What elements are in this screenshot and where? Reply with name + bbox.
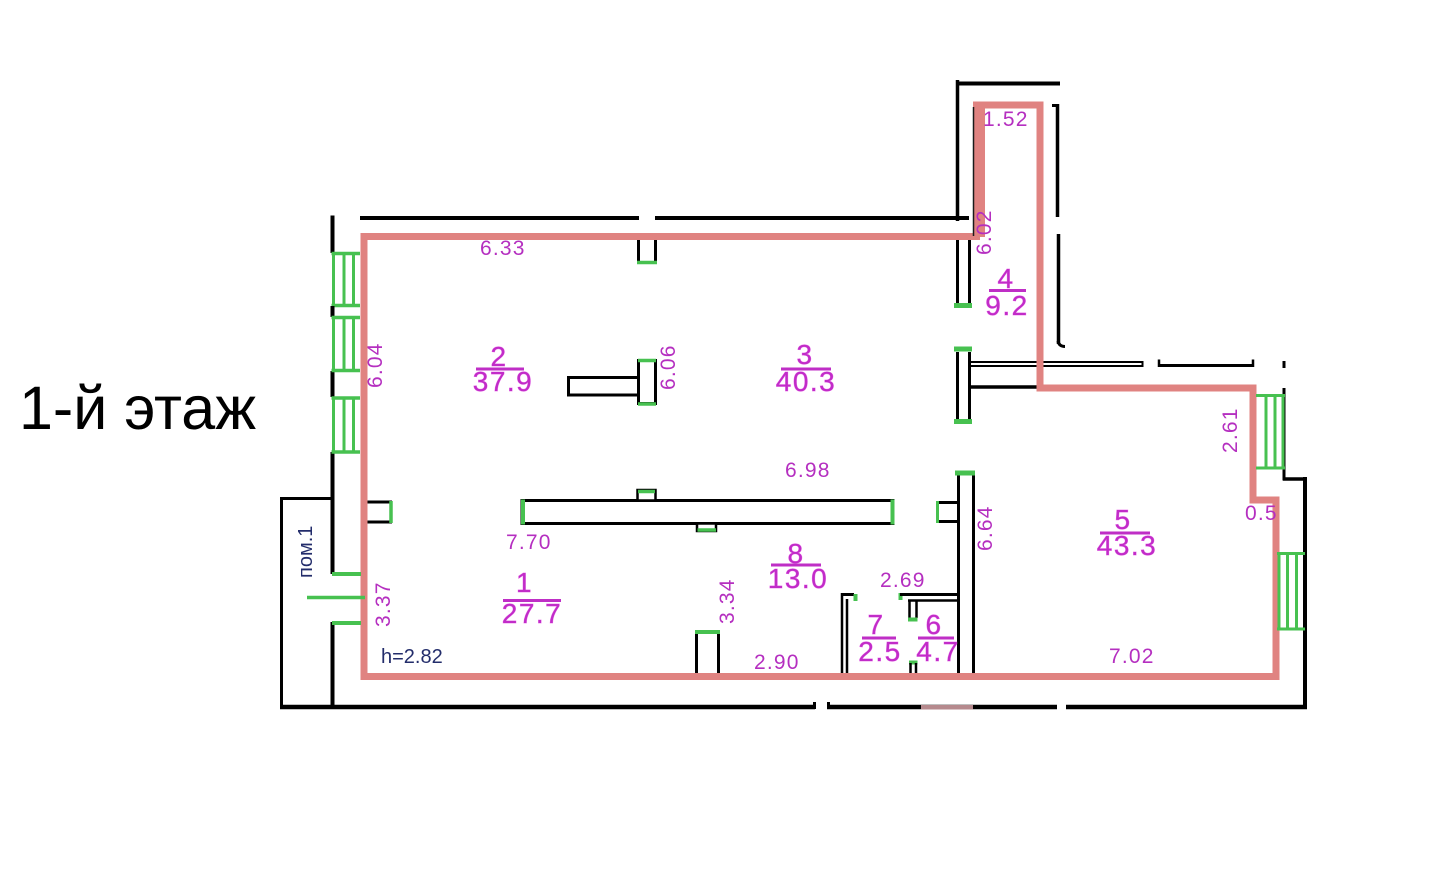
door left wall lower green cap xyxy=(332,621,361,625)
wall right step horizontal xyxy=(1283,477,1307,481)
svg-text:2.61: 2.61 xyxy=(1219,407,1242,453)
svg-text:6.04: 6.04 xyxy=(364,342,387,388)
wall rooms67 top line xyxy=(900,593,958,596)
wall top segment A xyxy=(360,216,639,220)
wall mid below tower door double left line xyxy=(956,352,959,419)
wall left main lower xyxy=(331,622,335,709)
wall left protrusion bottom xyxy=(366,521,392,524)
wall stair lower double line bottom xyxy=(969,365,1143,367)
wall bottom gap tick left xyxy=(813,702,816,709)
wall top segment B xyxy=(655,216,969,220)
wall room7 left inner line xyxy=(846,599,849,676)
svg-text:2.69: 2.69 xyxy=(880,569,926,592)
wall stair segment 2 right tick xyxy=(1252,360,1255,368)
door green cap divider67 lower top xyxy=(909,661,918,665)
window left 2 xyxy=(332,317,361,371)
svg-text:6.06: 6.06 xyxy=(657,344,680,390)
wall left protrusion top xyxy=(366,501,392,504)
pink apartment outline xyxy=(364,105,1276,677)
wall bottom greyish overlay xyxy=(921,705,973,710)
door green central notch bottom xyxy=(698,528,717,532)
wall stair segment 2 left tick xyxy=(1158,360,1161,368)
label room 4 area xyxy=(985,263,1028,321)
svg-text:3.34: 3.34 xyxy=(716,578,739,624)
wall window-right edge vertical xyxy=(1283,388,1286,481)
wall tower right top foot xyxy=(1052,104,1059,107)
wall bottom segment A xyxy=(280,705,815,710)
wall tower right upper xyxy=(1056,104,1060,217)
svg-text:2.90: 2.90 xyxy=(754,651,800,674)
door green tower left cap1 xyxy=(954,303,972,308)
door green tower left cap2 xyxy=(954,347,972,352)
svg-text:9.2: 9.2 xyxy=(985,290,1028,321)
svg-text:h=2.82: h=2.82 xyxy=(381,646,443,668)
wall divider67 lower left xyxy=(909,663,912,676)
window left 3 xyxy=(332,397,361,452)
wall left main upper xyxy=(331,371,335,397)
wall T column horizontal bar xyxy=(569,378,640,396)
pink tower left thick stripe xyxy=(974,102,986,238)
label room 2 area xyxy=(473,341,534,397)
wall 2.90 piece right xyxy=(717,631,720,676)
wall divider67 left line xyxy=(908,600,911,618)
label room 5 area xyxy=(1097,504,1158,561)
wall top-left short vertical xyxy=(331,216,335,254)
svg-text:1.52: 1.52 xyxy=(983,108,1029,131)
wall central bottom notch xyxy=(697,524,716,532)
wall divider67 right line xyxy=(915,600,918,618)
wall dash above right window xyxy=(1283,361,1286,368)
wall tower left lower double right line xyxy=(968,239,971,304)
door left wall green leaf line xyxy=(307,596,365,600)
svg-text:1: 1 xyxy=(516,567,533,598)
wall tower top xyxy=(956,82,1060,86)
wall stair lower double line top xyxy=(969,361,1143,363)
svg-text:пом.1: пом.1 xyxy=(295,526,317,578)
window 6.64 notch green left edge xyxy=(936,501,939,523)
svg-text:1-й этаж: 1-й этаж xyxy=(19,374,256,442)
wall 6.64 left line xyxy=(957,472,960,676)
door green 6.64 top cap xyxy=(955,471,975,476)
door green mid wall bottom cap xyxy=(954,419,972,424)
label room 8 area xyxy=(768,538,829,594)
door green top piece bottom cap xyxy=(637,261,657,265)
wall tower right bottom hook xyxy=(1058,341,1065,347)
wall tower left upper xyxy=(956,80,960,221)
wall 2.90 piece left xyxy=(695,631,698,676)
wall central outline xyxy=(522,501,893,524)
svg-text:6.02: 6.02 xyxy=(973,209,996,255)
svg-text:6.98: 6.98 xyxy=(785,459,831,482)
svg-text:3.37: 3.37 xyxy=(372,581,395,627)
svg-text:37.9: 37.9 xyxy=(473,366,534,397)
wall bottom segment B xyxy=(827,705,1057,710)
wall tower right lower xyxy=(1057,234,1061,344)
svg-text:13.0: 13.0 xyxy=(768,563,829,594)
window left 1 xyxy=(332,253,361,306)
wall room7 top stub xyxy=(841,593,854,596)
wall pom1 box left xyxy=(280,497,283,709)
wall left main middle xyxy=(331,452,335,574)
door green central bump top xyxy=(638,490,655,494)
wall top door piece right xyxy=(654,239,657,262)
wall bottom segment C xyxy=(1066,705,1307,710)
wall thin black line inside tower pink xyxy=(973,107,975,236)
label room 1 area xyxy=(502,567,563,629)
door left wall upper green cap xyxy=(332,572,361,576)
wall pom1 box top xyxy=(280,497,333,500)
svg-text:2.5: 2.5 xyxy=(858,636,901,667)
wall tower left lower double left line xyxy=(956,239,959,304)
window right bottom xyxy=(1277,554,1305,630)
door green left protrusion right edge xyxy=(389,501,393,523)
wall top door piece left xyxy=(637,239,640,262)
svg-text:7.70: 7.70 xyxy=(506,531,552,554)
wall rooms67 top second line xyxy=(908,599,958,602)
label room 7 area xyxy=(858,609,901,667)
wall mid below tower door double right line xyxy=(968,352,971,419)
svg-text:40.3: 40.3 xyxy=(776,366,837,397)
door green central wall left cap xyxy=(521,500,525,525)
wall 6.64 right line xyxy=(972,472,975,676)
svg-text:4.7: 4.7 xyxy=(916,636,959,667)
wall stair lower end cap xyxy=(1142,361,1144,367)
wall room5 top black under pink xyxy=(969,385,1040,389)
door green central wall right cap xyxy=(891,500,895,525)
wall T column vertical bar xyxy=(639,361,656,404)
door green T column bottom cap xyxy=(638,402,656,406)
svg-text:27.7: 27.7 xyxy=(502,598,563,629)
door green cap divider67 bottom xyxy=(908,618,918,622)
door green cap room7 stub xyxy=(854,594,858,601)
svg-text:6.64: 6.64 xyxy=(974,505,997,551)
label room 3 area xyxy=(776,339,837,397)
svg-text:6.33: 6.33 xyxy=(480,237,526,260)
wall right main xyxy=(1303,477,1307,709)
wall room7 left outer line xyxy=(841,593,844,676)
door green T column top cap xyxy=(638,359,656,363)
wall 6.64 notch bottom xyxy=(936,520,958,523)
wall piece between windows 1 and 2 xyxy=(331,306,335,317)
svg-text:0.5: 0.5 xyxy=(1245,502,1278,525)
window right top xyxy=(1256,396,1285,469)
door green cap rooms67 top left xyxy=(899,593,903,600)
svg-text:43.3: 43.3 xyxy=(1097,530,1158,561)
svg-text:7.02: 7.02 xyxy=(1109,645,1155,668)
wall divider67 lower right xyxy=(915,663,918,676)
label room 6 area xyxy=(916,609,959,667)
wall 6.64 notch top xyxy=(936,501,958,504)
wall central top bump xyxy=(638,490,656,501)
wall bottom gap tick right xyxy=(827,702,830,709)
door green cap 2.90 piece top xyxy=(695,630,720,634)
wall stair segment 2 xyxy=(1158,364,1254,367)
